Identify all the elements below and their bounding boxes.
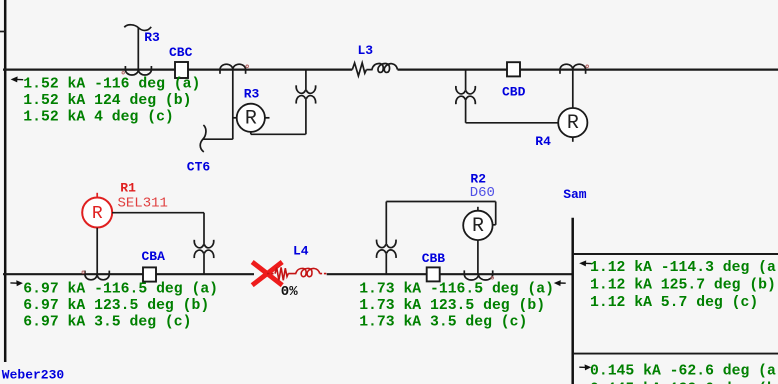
svg-text:D60: D60 [470,185,495,201]
svg-text:1.12 kA 5.7 deg (c): 1.12 kA 5.7 deg (c) [590,295,758,311]
svg-text:1.52 kA -116 deg (a): 1.52 kA -116 deg (a) [23,77,200,93]
svg-text:L3: L3 [358,43,374,58]
svg-text:CT6: CT6 [187,160,211,175]
svg-text:Sam: Sam [563,187,587,202]
svg-text:R4: R4 [535,134,551,149]
svg-text:CBA: CBA [142,249,166,264]
svg-text:1.12 kA -114.3 deg (a): 1.12 kA -114.3 deg (a) [590,260,778,276]
svg-text:R: R [567,112,579,135]
svg-text:1.52 kA 124 deg (b): 1.52 kA 124 deg (b) [23,93,191,109]
svg-text:L4: L4 [293,244,309,259]
svg-text:1.73 kA -116.5 deg (a): 1.73 kA -116.5 deg (a) [359,282,554,298]
svg-text:SEL311: SEL311 [118,196,168,212]
svg-text:1.73 kA 123.5 deg (b): 1.73 kA 123.5 deg (b) [359,298,545,314]
svg-text:1.12 kA 125.7 deg (b): 1.12 kA 125.7 deg (b) [590,277,776,293]
svg-text:6.97 kA 3.5 deg (c): 6.97 kA 3.5 deg (c) [23,315,191,331]
svg-text:0%: 0% [281,284,298,300]
svg-text:R: R [92,204,103,224]
svg-text:Weber230: Weber230 [2,368,65,383]
svg-text:6.97 kA -116.5 deg (a): 6.97 kA -116.5 deg (a) [23,282,218,298]
svg-text:CBC: CBC [169,45,193,60]
svg-text:R: R [245,107,257,130]
svg-text:R3: R3 [144,30,160,45]
svg-text:1.73 kA 3.5 deg (c): 1.73 kA 3.5 deg (c) [359,315,527,331]
svg-text:R3: R3 [244,87,260,102]
svg-text:0.145 kA -62.6 deg (a): 0.145 kA -62.6 deg (a) [590,364,778,380]
svg-text:R1: R1 [120,181,136,196]
svg-text:1.52 kA 4 deg (c): 1.52 kA 4 deg (c) [23,110,173,126]
svg-text:6.97 kA 123.5 deg (b): 6.97 kA 123.5 deg (b) [23,298,209,314]
svg-text:CBD: CBD [502,84,526,99]
svg-text:R: R [472,215,484,238]
svg-text:CBB: CBB [422,251,446,266]
